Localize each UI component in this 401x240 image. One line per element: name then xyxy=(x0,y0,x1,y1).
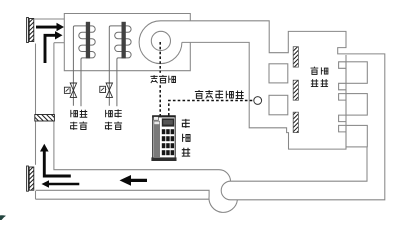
coil C2: heating coil serpentine xyxy=(109,26,131,106)
arrow: recirculation up (bent left-up) xyxy=(44,151,71,176)
coil C1: cooling coil serpentine xyxy=(73,26,95,106)
wire: left outer wall xyxy=(35,44,37,165)
coil C2 finned bar xyxy=(122,22,126,59)
fan scroll outer volute xyxy=(139,21,182,64)
node: return grille box 1 xyxy=(346,62,367,84)
node: return grille box 3 xyxy=(346,125,367,146)
wire: supply duct outer wall / zone box top / return duct outer wall (single polyline) xyxy=(161,21,385,200)
wire: outside-air duct top wall xyxy=(35,18,65,20)
decorative corner mark xyxy=(0,215,6,220)
wire: right wall stub tab, box2 bottom xyxy=(339,115,346,122)
valve V2 (heating, bowtie + actuator) xyxy=(100,83,113,97)
wire: right wall stub tab, box1 top xyxy=(339,62,346,69)
wire: mixing box bottom wall stub to AHU xyxy=(54,42,64,44)
wire: bottom duct outer bottom line xyxy=(36,198,210,200)
arrow: recirculated air joins (bent up-right) xyxy=(45,35,56,63)
wire: dashed control line fan to VFD xyxy=(159,42,161,116)
wire: right wall stub tab, box2 top xyxy=(339,94,346,101)
label 空調區間 (zone) xyxy=(311,67,329,87)
damper D2 (supply diffuser, hatched) xyxy=(293,80,298,100)
wire: dashed control line pressure sensor to VFD xyxy=(169,101,254,116)
label 變頻器 (VFD, vertical) xyxy=(182,119,190,156)
label 壓力感知器 (pressure sensor) with backing xyxy=(194,89,246,100)
damper: exhaust air (plate + hatched body) xyxy=(27,166,29,191)
arrow: exhaust out (left) xyxy=(49,183,80,186)
wire: bottom duct inner bottom line with step and big arc under return cap xyxy=(36,190,238,212)
label 送風機 (fan) with backing xyxy=(148,73,177,85)
damper D3 (supply diffuser, hatched) xyxy=(293,112,298,132)
damper: recirculation duct (hatched horizontal) xyxy=(35,115,55,122)
label 加熱盤管 (heating coil) xyxy=(105,109,122,129)
sensor: pressure sensor circle xyxy=(254,97,262,105)
node: return grille box 2 xyxy=(346,94,367,116)
arrow: return air (thick left) xyxy=(131,179,148,182)
damper: outside air intake (plate + hatched body) xyxy=(27,18,29,43)
wire: partition pier P2 between supply branch openings xyxy=(269,64,288,83)
damper D1 (supply diffuser, hatched) xyxy=(293,47,298,67)
wire: right wall stub tab, box1 bottom xyxy=(339,83,346,90)
wire: AHU casing box xyxy=(64,14,190,71)
wire: left closure below exhaust damper xyxy=(35,191,37,199)
wire: mixing box right wall and bottom duct top wall with corner arc onto return cap xyxy=(54,43,231,182)
valve V1 (cooling, bowtie + actuator) xyxy=(64,83,76,97)
label 冷卻盤管 (cooling coil) xyxy=(70,110,87,130)
component: VFD inverter cabinet xyxy=(151,115,176,161)
wire: partition pier P3 between supply branch openings xyxy=(269,95,288,115)
wire: supply duct inner wall / zone box left-bottom wall xyxy=(182,42,346,149)
wire: right wall stub tab, box3 top xyxy=(339,125,346,131)
arrow: outside air in (straight right) xyxy=(36,23,64,31)
fan impeller circle xyxy=(151,31,170,50)
coil C1 finned bar xyxy=(86,22,90,59)
